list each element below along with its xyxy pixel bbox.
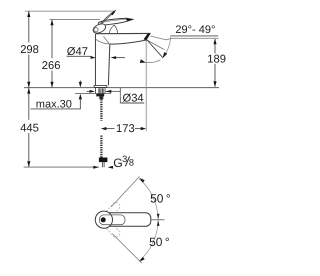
cartridge dome — [109, 25, 117, 33]
deck line left — [24, 87, 94, 89]
svg-text:50 °: 50 ° — [150, 191, 171, 205]
top view: lower ray 50deg — [112, 234, 142, 264]
spout angle ray 29deg — [147, 40, 165, 50]
svg-text:Ø34: Ø34 — [123, 92, 144, 104]
top view: arc end arrow bottom — [140, 257, 145, 262]
svg-text:298: 298 — [20, 44, 39, 56]
spout top edge — [95, 32, 150, 34]
top view: inner handle — [99, 215, 125, 225]
svg-text:189: 189 — [207, 54, 226, 66]
top view: centerline — [151, 219, 165, 221]
dimension 189 line — [214, 39, 216, 54]
shank thread — [98, 88, 103, 93]
top view: upper ray 50deg — [111, 176, 139, 207]
lever knuckle — [92, 22, 107, 35]
spout outlet extension line (189 top) — [150, 36, 218, 40]
G3/8 arrows — [93, 166, 99, 169]
dimension Ø34 leader — [106, 90, 121, 92]
top view: swivel stub dashed lower — [104, 221, 121, 238]
top view: handle bar — [104, 213, 151, 227]
dimension 445 line — [28, 88, 30, 120]
dimension max.30 arrows — [79, 81, 81, 83]
faucet body left edge — [94, 34, 96, 85]
svg-text:8: 8 — [129, 158, 134, 168]
threaded rod upper — [100, 99, 102, 120]
threaded rod lower — [100, 136, 102, 158]
spout tip face — [144, 33, 151, 41]
lever arm — [98, 18, 133, 27]
svg-text:3: 3 — [122, 154, 127, 164]
svg-text:29°- 49°: 29°- 49° — [175, 24, 215, 36]
mounting nut — [96, 93, 104, 96]
hose end reference line (445 bottom) — [24, 166, 99, 168]
svg-text:266: 266 — [42, 60, 61, 72]
top view: center arrows — [157, 214, 160, 220]
G3/8 nipple — [99, 158, 108, 163]
dimension 266 line — [51, 20, 53, 59]
lever spike — [100, 10, 115, 24]
dimension Ø47 right arrow — [111, 56, 117, 59]
top view: body circle — [95, 211, 112, 228]
top view: swivel arc — [139, 179, 158, 261]
top view: center dot — [101, 217, 106, 222]
svg-text:445: 445 — [20, 122, 39, 134]
extension line top of lever (298 ref) — [25, 10, 114, 12]
spout underside — [110, 40, 146, 44]
connection tube — [101, 162, 103, 167]
top view: arc end arrow top — [140, 178, 145, 183]
counter slab bottom left — [75, 93, 97, 95]
dimension 173 line — [106, 128, 114, 130]
faucet base flange — [94, 85, 107, 87]
dimension Ø34 arrows — [89, 90, 95, 93]
faucet body right edge — [108, 44, 109, 85]
top view: swivel stub dashed upper — [104, 201, 121, 218]
svg-text:50 °: 50 ° — [149, 235, 170, 249]
spout tip extension line (vertical) — [145, 40, 147, 131]
spout angle ray 49deg — [147, 40, 163, 57]
extension line 266 ref — [50, 18, 101, 20]
deck line right — [107, 87, 219, 89]
svg-text:173: 173 — [116, 123, 135, 135]
counter slab bottom right — [103, 93, 111, 95]
mounting shank — [94, 88, 96, 94]
dimension 298 line — [28, 11, 30, 42]
angle arc with arrows — [162, 36, 170, 58]
dimension Ø47 left arrow — [90, 56, 95, 59]
